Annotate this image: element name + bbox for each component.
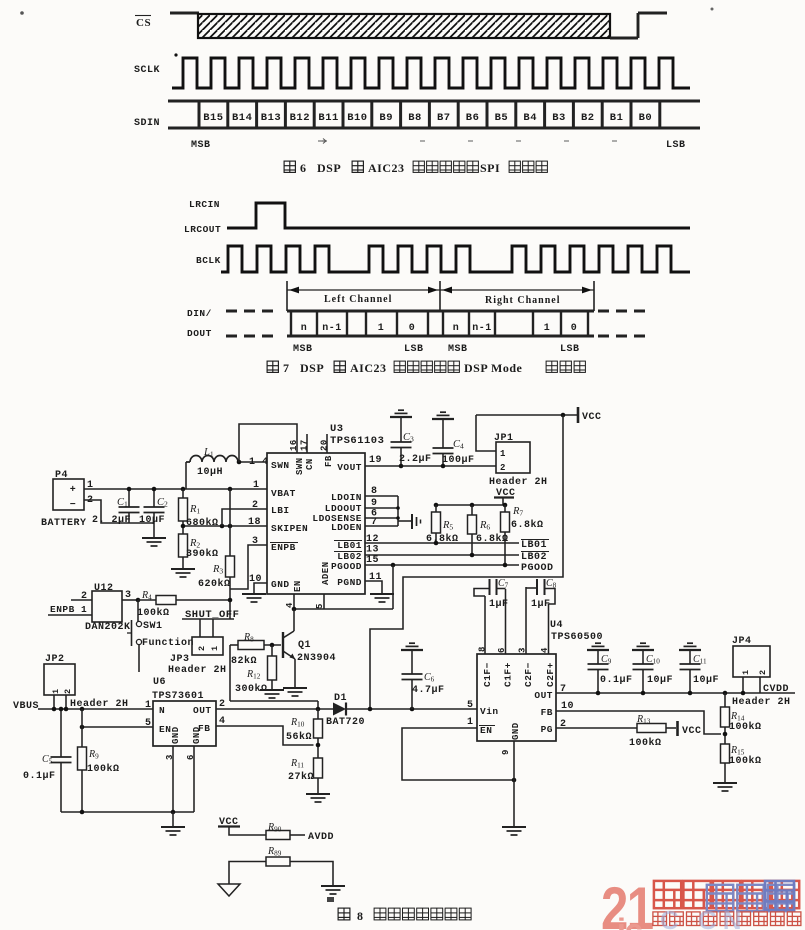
svg-text:C CN: C CN	[660, 905, 748, 930]
svg-text:620kΩ: 620kΩ	[198, 578, 231, 590]
svg-text:B10: B10	[347, 112, 367, 124]
svg-text:100μF: 100μF	[442, 455, 475, 466]
svg-text:2: 2	[197, 645, 207, 651]
svg-text:LSB: LSB	[560, 344, 580, 355]
svg-text:C10: C10	[646, 654, 660, 666]
svg-text:B13: B13	[261, 112, 281, 124]
svg-text:SCLK: SCLK	[134, 65, 160, 76]
svg-text:+: +	[70, 485, 77, 496]
svg-text:L1: L1	[203, 447, 214, 459]
svg-text:0.1μF: 0.1μF	[23, 771, 56, 782]
svg-text:ADEN: ADEN	[321, 561, 331, 585]
svg-text:PG: PG	[541, 724, 553, 735]
svg-text:Right Channel: Right Channel	[485, 295, 561, 306]
svg-text:LDOIN: LDOIN	[331, 492, 362, 503]
svg-text:2. 2μF: 2. 2μF	[92, 515, 131, 526]
svg-text:R5: R5	[442, 520, 453, 532]
svg-text:n: n	[301, 323, 308, 334]
svg-text:VOUT: VOUT	[337, 462, 362, 473]
svg-text:100kΩ: 100kΩ	[729, 721, 762, 733]
svg-text:n-1: n-1	[322, 323, 342, 334]
svg-text:100kΩ: 100kΩ	[629, 737, 662, 749]
svg-text:1: 1	[51, 688, 61, 694]
svg-text:1: 1	[544, 323, 551, 334]
svg-text:TPS60500: TPS60500	[551, 632, 603, 643]
svg-text:B8: B8	[408, 112, 422, 124]
svg-text:CN: CN	[305, 458, 315, 470]
svg-text:R3: R3	[212, 564, 223, 576]
svg-text:LB01: LB01	[337, 540, 362, 551]
svg-text:CS: CS	[136, 17, 151, 29]
svg-text:U3: U3	[330, 423, 344, 435]
svg-text:LB01: LB01	[521, 540, 547, 551]
svg-text:6: 6	[497, 647, 507, 653]
svg-text:PGND: PGND	[337, 577, 362, 588]
svg-text:C11: C11	[693, 654, 707, 666]
svg-text:Function: Function	[142, 637, 194, 649]
svg-text:R89: R89	[267, 846, 282, 858]
svg-text:B12: B12	[290, 112, 310, 124]
svg-text:B11: B11	[318, 112, 338, 124]
svg-text:R14: R14	[730, 711, 745, 723]
svg-text:R90: R90	[267, 822, 282, 834]
svg-text:82kΩ: 82kΩ	[231, 655, 257, 667]
svg-text:C1F+: C1F+	[503, 662, 514, 687]
svg-text:1μF: 1μF	[531, 599, 551, 610]
svg-text:5: 5	[315, 603, 325, 609]
svg-text:BATTERY: BATTERY	[41, 518, 87, 529]
svg-text:MSB: MSB	[448, 344, 468, 355]
svg-text:Header 2H: Header 2H	[732, 696, 791, 708]
svg-text:6: 6	[300, 161, 307, 175]
svg-text:17: 17	[300, 439, 310, 451]
svg-text:LDOEN: LDOEN	[331, 522, 362, 533]
svg-text:3: 3	[252, 536, 259, 547]
svg-text:B3: B3	[552, 112, 566, 124]
svg-text:R6: R6	[479, 520, 490, 532]
svg-text:SPI: SPI	[480, 161, 500, 175]
svg-text:Vin: Vin	[480, 706, 499, 717]
svg-text:C2F−: C2F−	[523, 662, 534, 687]
svg-text:−: −	[70, 500, 77, 511]
svg-text:EN: EN	[159, 724, 171, 735]
svg-text:10μH: 10μH	[197, 467, 223, 478]
svg-text:MSB: MSB	[293, 344, 313, 355]
svg-text:2.2μF: 2.2μF	[399, 454, 432, 465]
svg-text:n: n	[453, 323, 460, 334]
svg-text:10μF: 10μF	[139, 515, 165, 526]
svg-text:2N3904: 2N3904	[297, 653, 336, 664]
svg-text:C2F+: C2F+	[545, 662, 556, 687]
svg-text:4: 4	[540, 647, 550, 653]
svg-text:AVDD: AVDD	[308, 832, 334, 843]
svg-text:390kΩ: 390kΩ	[186, 548, 219, 560]
svg-text:100kΩ: 100kΩ	[87, 763, 120, 775]
svg-text:10μF: 10μF	[647, 675, 673, 686]
svg-text:ENPB 1: ENPB 1	[50, 604, 87, 615]
svg-text:R10: R10	[290, 717, 305, 729]
svg-text:DSP Mode: DSP Mode	[464, 361, 523, 375]
svg-text:BAT720: BAT720	[326, 717, 365, 728]
svg-text:LSB: LSB	[404, 344, 424, 355]
svg-text:PGOOD: PGOOD	[331, 561, 362, 572]
svg-text:B4: B4	[523, 112, 537, 124]
svg-text:R12: R12	[246, 669, 261, 681]
svg-text:Q1: Q1	[298, 640, 311, 651]
svg-text:LB02: LB02	[521, 552, 547, 563]
svg-text:VCC: VCC	[682, 726, 702, 737]
svg-text:D1: D1	[334, 693, 347, 704]
svg-text:C6: C6	[424, 672, 435, 684]
svg-text:1: 1	[210, 645, 220, 651]
svg-text:2: 2	[63, 688, 73, 694]
svg-text:R11: R11	[290, 758, 304, 770]
svg-text:LSB: LSB	[666, 140, 686, 151]
svg-text:1: 1	[145, 700, 152, 711]
svg-text:C5: C5	[42, 754, 53, 766]
svg-text:SWN: SWN	[295, 457, 305, 475]
svg-text:GND: GND	[271, 579, 290, 590]
svg-text:27kΩ: 27kΩ	[288, 771, 314, 783]
svg-text:B6: B6	[466, 112, 480, 124]
svg-text:8: 8	[357, 909, 364, 923]
svg-text:U6: U6	[153, 677, 166, 688]
svg-text:N: N	[159, 705, 165, 716]
svg-text:1: 1	[500, 449, 506, 459]
svg-text:7: 7	[283, 361, 290, 375]
svg-text:5: 5	[467, 700, 474, 711]
svg-text:R15: R15	[730, 745, 745, 757]
svg-text:C1F−: C1F−	[482, 662, 493, 687]
svg-text:0: 0	[409, 323, 416, 334]
svg-text:EN: EN	[480, 725, 492, 736]
svg-text:10μF: 10μF	[693, 675, 719, 686]
svg-text:1: 1	[467, 717, 474, 728]
svg-text:U12: U12	[94, 583, 114, 594]
svg-text:1μF: 1μF	[489, 599, 509, 610]
svg-text:B14: B14	[232, 112, 252, 124]
svg-text:C4: C4	[453, 439, 464, 451]
svg-text:MSB: MSB	[191, 140, 211, 151]
svg-text:Header 2H: Header 2H	[70, 698, 129, 710]
svg-text:SWN: SWN	[271, 460, 290, 471]
svg-text:2: 2	[758, 669, 768, 675]
svg-text:ic: ic	[617, 912, 642, 930]
svg-text:B0: B0	[639, 112, 653, 124]
svg-text:1: 1	[741, 669, 751, 675]
svg-text:R1: R1	[189, 504, 200, 516]
svg-text:ENPB: ENPB	[271, 542, 296, 553]
svg-text:2: 2	[252, 500, 259, 511]
svg-text:AIC23: AIC23	[368, 161, 405, 175]
svg-text:AIC23: AIC23	[350, 361, 387, 375]
svg-text:TPS61103: TPS61103	[330, 435, 384, 447]
svg-text:56kΩ: 56kΩ	[286, 731, 312, 743]
svg-text:R9: R9	[88, 749, 99, 761]
svg-text:LRCIN: LRCIN	[189, 199, 220, 210]
svg-text:OUT: OUT	[193, 705, 212, 716]
svg-text:SDIN: SDIN	[134, 118, 160, 129]
svg-text:0.1μF: 0.1μF	[600, 675, 633, 686]
svg-text:B7: B7	[437, 112, 451, 124]
svg-text:4.7μF: 4.7μF	[412, 685, 445, 696]
svg-text:VCC: VCC	[582, 412, 602, 423]
svg-text:R7: R7	[512, 506, 523, 518]
svg-text:B5: B5	[495, 112, 509, 124]
svg-text:FB: FB	[541, 707, 553, 718]
svg-text:DSP: DSP	[300, 361, 324, 375]
svg-text:DOUT: DOUT	[187, 328, 212, 339]
svg-text:n-1: n-1	[472, 323, 492, 334]
svg-text:GND: GND	[192, 726, 202, 744]
svg-text:Header 2H: Header 2H	[489, 476, 548, 488]
svg-text:VBUS: VBUS	[13, 701, 39, 712]
svg-text:Header 2H: Header 2H	[168, 664, 227, 676]
svg-text:16: 16	[289, 439, 299, 451]
svg-text:19: 19	[369, 455, 382, 466]
svg-text:0: 0	[571, 323, 578, 334]
svg-text:6.8kΩ: 6.8kΩ	[511, 519, 544, 531]
svg-text:FB: FB	[324, 455, 334, 467]
svg-text:9: 9	[501, 749, 511, 755]
svg-text:3: 3	[518, 647, 528, 653]
svg-text:B1: B1	[610, 112, 624, 124]
svg-text:2: 2	[500, 463, 506, 473]
svg-text:C1: C1	[117, 497, 128, 509]
svg-text:DIN/: DIN/	[187, 308, 212, 319]
svg-text:JP1: JP1	[494, 433, 514, 444]
svg-text:C2: C2	[157, 497, 168, 509]
svg-text:100kΩ: 100kΩ	[729, 755, 762, 767]
svg-text:Left Channel: Left Channel	[324, 294, 392, 305]
svg-text:8: 8	[478, 646, 488, 652]
svg-text:18: 18	[248, 517, 261, 528]
svg-text:1: 1	[378, 323, 385, 334]
svg-text:C9: C9	[601, 654, 612, 666]
svg-text:R8: R8	[243, 632, 254, 644]
svg-text:1: 1	[253, 480, 260, 491]
svg-text:R13: R13	[636, 714, 651, 726]
svg-text:R2: R2	[189, 538, 200, 550]
svg-text:SKIPEN: SKIPEN	[271, 523, 308, 534]
svg-text:LRCOUT: LRCOUT	[184, 224, 221, 235]
svg-text:B2: B2	[581, 112, 595, 124]
svg-text:20: 20	[320, 439, 330, 451]
svg-text:OUT: OUT	[534, 690, 553, 701]
svg-text:GND: GND	[171, 726, 181, 744]
svg-text:BCLK: BCLK	[196, 255, 221, 266]
svg-text:EN: EN	[293, 580, 303, 592]
svg-text:JP3: JP3	[170, 654, 190, 665]
svg-text:DSP: DSP	[317, 161, 341, 175]
svg-text:U4: U4	[550, 620, 563, 631]
svg-text:LBI: LBI	[271, 505, 290, 516]
svg-text:C8: C8	[546, 578, 557, 590]
svg-text:B9: B9	[379, 112, 393, 124]
svg-text:C7: C7	[498, 578, 509, 590]
svg-text:GND: GND	[511, 722, 521, 740]
svg-text:13: 13	[366, 545, 379, 556]
svg-text:PGOOD: PGOOD	[521, 563, 554, 574]
svg-text:DAN202K: DAN202K	[85, 622, 131, 633]
svg-text:VBAT: VBAT	[271, 488, 296, 499]
svg-text:1 4: 1 4	[249, 457, 269, 468]
svg-text:SW1: SW1	[143, 621, 163, 632]
svg-text:C3: C3	[403, 432, 414, 444]
svg-text:B15: B15	[203, 112, 223, 124]
svg-text:100kΩ: 100kΩ	[137, 607, 170, 619]
svg-text:CVDD: CVDD	[763, 684, 789, 695]
svg-text:3: 3	[125, 590, 132, 601]
svg-text:680kΩ: 680kΩ	[186, 517, 219, 529]
